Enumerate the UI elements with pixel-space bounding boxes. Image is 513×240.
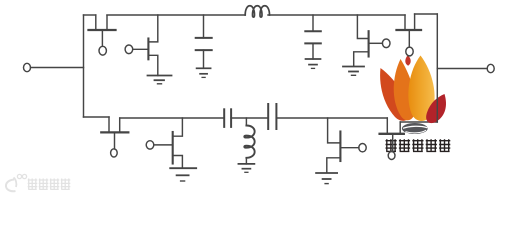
wire: Q8 source to right bus (runs behind logo disc) [400, 121, 437, 123]
flame petal middle (orange) [394, 59, 416, 120]
wire: right output bus vertical [436, 14, 438, 122]
ground: under C1 [197, 68, 211, 77]
watermark: bottom-left faint logo [6, 174, 70, 191]
wire: bottom rail segment 1 [120, 117, 225, 119]
ground: under Q7 [316, 173, 337, 184]
port: Q1 gate terminal [99, 46, 106, 55]
port: Q6 gate terminal [146, 141, 154, 149]
ground: under Q6 [170, 168, 196, 181]
port: Q2 gate terminal [125, 45, 133, 54]
capacitor C4 (series, bottom rail) [268, 104, 276, 129]
capacitor C1 (shunt, top) [196, 15, 212, 68]
port P1 input terminal [24, 63, 31, 71]
wire: top rail right segment [268, 14, 405, 16]
wire: bottom rail segment 2 [231, 117, 268, 119]
port: Q4 gate terminal [406, 47, 413, 56]
ground: under Q2 [148, 76, 172, 84]
flame petal left (red-orange) [380, 68, 409, 121]
inductor L1 (series, top rail) [245, 6, 269, 17]
port: Q3 gate terminal [382, 39, 390, 48]
capacitor C3 (series, bottom rail) [224, 109, 231, 127]
wire: left input bus vertical [83, 15, 85, 117]
wire: top rail left segment [84, 14, 96, 16]
port: Q5 gate terminal [111, 149, 118, 157]
transistor Q6 (shunt FET, bottom, gate left) [154, 118, 183, 168]
ground: under L2 [238, 164, 254, 172]
wire: top rail middle segment [107, 14, 245, 16]
flame petal right (dark red) [426, 94, 446, 123]
transistor Q7 (shunt FET, bottom right, gate right) [327, 118, 359, 173]
capacitor C2 (shunt, top) [305, 15, 321, 59]
wire: top link to right bus [415, 13, 438, 15]
port P2 output terminal [487, 64, 494, 72]
transistor Q3 (shunt FET, top right, gate right) [354, 15, 383, 66]
wire: bottom rail segment 3 [276, 117, 387, 119]
flame small red tip [405, 55, 410, 66]
transistor Q5 (series FET, bottom left, gate down) [101, 117, 128, 149]
wire: bottom rail left jog [84, 116, 110, 118]
port: Q8 gate terminal [388, 152, 395, 160]
wire: input lead [31, 67, 84, 69]
transistor Q1 (series FET, top left, gate down) [89, 15, 116, 46]
ground: under C2 [306, 59, 321, 68]
watermark text: 射频百花潭 (fake glyph strokes) [386, 139, 451, 151]
transistor Q4 (series FET, top right, gate down) [397, 14, 422, 47]
watermark logo: grey stone disc [402, 123, 428, 134]
flame petal tall (yellow-orange) [408, 56, 434, 121]
transistor Q8 (series FET, bottom right, gate down) [380, 118, 404, 152]
wire: output lead [437, 68, 487, 70]
transistor Q2 (shunt FET, top, gate left) [133, 15, 158, 76]
inductor L2 (shunt, bottom) [244, 118, 254, 164]
ground: under Q3 [343, 67, 364, 76]
port: Q7 gate terminal [359, 144, 366, 152]
